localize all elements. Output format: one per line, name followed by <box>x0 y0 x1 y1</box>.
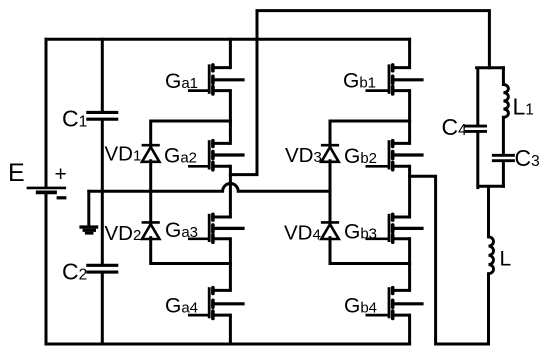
transistor Gb1 <box>366 64 424 94</box>
transistor Ga1 <box>188 64 245 94</box>
wire VD2 bottom link <box>151 238 231 264</box>
diode VD4 <box>321 222 339 239</box>
transistor Gb3 <box>366 214 424 242</box>
svg-text:+: + <box>55 163 67 186</box>
wire VD4 bottom link <box>330 238 410 264</box>
transistor Gb2 <box>366 140 424 170</box>
wire load block right branch <box>502 68 505 187</box>
capacitor C2 <box>86 265 118 272</box>
wire second top rail <box>46 38 410 41</box>
transistor Gb4 <box>366 287 424 318</box>
wire C1-C2 rail <box>101 39 104 344</box>
battery E <box>27 188 67 193</box>
wire ground stub <box>87 191 90 225</box>
wire left rail top <box>45 39 48 186</box>
wire top output: node A to load block <box>230 11 489 175</box>
label minus <box>57 196 67 199</box>
wire VD1-VD2 link <box>149 161 152 224</box>
wire VD1 column and top link <box>151 121 231 146</box>
transistor Ga2 <box>188 140 245 170</box>
capacitor C3 <box>492 155 515 160</box>
leg verticals left <box>229 39 232 344</box>
svg-text:L: L <box>500 247 512 270</box>
diode VD3 <box>321 145 339 162</box>
wire load block outline left <box>477 68 504 237</box>
wire mid rail with hop over left leg <box>89 184 330 192</box>
ground <box>79 225 98 228</box>
inductor L1 <box>503 85 508 118</box>
diode VD1 <box>142 145 160 162</box>
transistor Ga4 <box>188 287 245 318</box>
capacitor C1 <box>86 112 118 119</box>
wire VD3 column and top link <box>330 121 410 146</box>
wire right output to load <box>410 176 489 344</box>
transistor Ga3 <box>188 214 245 242</box>
inductor L <box>489 237 494 274</box>
leg verticals right <box>408 39 411 344</box>
capacitor C4 <box>464 126 487 131</box>
wire VD3-VD4 link <box>329 161 332 224</box>
wire left rail bottom + bottom bus <box>46 194 410 344</box>
diode VD2 <box>142 222 160 239</box>
svg-text:E: E <box>8 159 25 187</box>
